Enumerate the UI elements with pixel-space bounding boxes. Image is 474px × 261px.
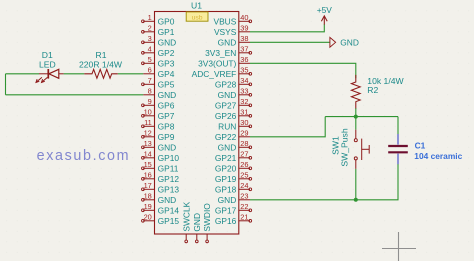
U1 pin 30 (RUN) bbox=[218, 118, 252, 131]
svg-text:GND: GND bbox=[158, 195, 177, 205]
svg-text:GND: GND bbox=[218, 90, 237, 100]
svg-text:GP18: GP18 bbox=[215, 184, 237, 194]
U1 pin 14 (GP10) bbox=[142, 150, 180, 163]
svg-text:GP14: GP14 bbox=[158, 205, 180, 215]
svg-text:GP0: GP0 bbox=[158, 16, 175, 26]
svg-text:12: 12 bbox=[144, 129, 152, 138]
svg-text:GP20: GP20 bbox=[215, 163, 237, 173]
power symbol +5V bbox=[321, 16, 327, 25]
svg-text:GND: GND bbox=[218, 37, 237, 47]
svg-text:SWDIO: SWDIO bbox=[202, 203, 212, 232]
svg-text:7: 7 bbox=[148, 76, 152, 85]
svg-text:13: 13 bbox=[144, 139, 152, 148]
U1 pin 9 (GP6) bbox=[142, 97, 175, 110]
U1 pin 22 (GP17) bbox=[215, 202, 252, 215]
U1 pin 5 (GP3) bbox=[142, 55, 175, 68]
svg-text:14: 14 bbox=[144, 150, 152, 159]
U1 pin 11 (GP8) bbox=[142, 118, 175, 131]
svg-text:31: 31 bbox=[240, 108, 248, 117]
switch SW1 bbox=[354, 130, 369, 169]
svg-text:39: 39 bbox=[240, 24, 248, 33]
svg-text:32: 32 bbox=[240, 97, 248, 106]
svg-text:10: 10 bbox=[144, 108, 152, 117]
U1 pin 23 (GND) bbox=[218, 192, 250, 205]
svg-text:24: 24 bbox=[240, 181, 248, 190]
svg-text:usb: usb bbox=[192, 14, 203, 21]
U1 pin 31 (GP26) bbox=[215, 108, 252, 121]
LED D1 bbox=[36, 69, 64, 82]
wire 3V3(OUT) pin36 to R2 bbox=[250, 63, 356, 78]
svg-text:25: 25 bbox=[240, 171, 248, 180]
capacitor C1 bbox=[388, 134, 408, 164]
svg-text:220R 1/4W: 220R 1/4W bbox=[79, 59, 123, 69]
svg-text:GP12: GP12 bbox=[158, 174, 180, 184]
crosshair marker bbox=[382, 232, 416, 261]
svg-text:GND: GND bbox=[158, 37, 177, 47]
wire VSYS pin39 to +5V bbox=[250, 24, 324, 32]
U1 bottom pin (SWCLK) bbox=[181, 201, 191, 242]
U1 pin 16 (GP12) bbox=[142, 171, 180, 184]
U1 pin 38 (GND) bbox=[218, 34, 250, 47]
svg-text:23: 23 bbox=[240, 192, 248, 201]
svg-text:VSYS: VSYS bbox=[214, 27, 237, 37]
U1 pin 18 (GND) bbox=[142, 192, 177, 205]
svg-text:GP8: GP8 bbox=[158, 121, 175, 131]
U1 pin 39 (VSYS) bbox=[214, 24, 250, 37]
U1 pin 17 (GP13) bbox=[142, 181, 180, 194]
svg-text:GP28: GP28 bbox=[215, 79, 237, 89]
svg-text:+5V: +5V bbox=[317, 5, 333, 15]
U1 pin 28 (GND) bbox=[218, 139, 252, 152]
U1 pin 35 (ADC_VREF) bbox=[192, 66, 252, 79]
svg-text:29: 29 bbox=[240, 129, 248, 138]
U1 pin 19 (GP14) bbox=[142, 202, 180, 215]
wire SW1 to bottom GND net bbox=[355, 169, 357, 200]
U1 pin 3 (GND) bbox=[142, 34, 177, 47]
svg-text:27: 27 bbox=[240, 150, 248, 159]
svg-text:37: 37 bbox=[240, 45, 248, 54]
svg-text:LED: LED bbox=[39, 59, 56, 69]
U1 pin 15 (GP11) bbox=[142, 160, 179, 173]
wire GP4 pin6 to resistor R1 bbox=[118, 73, 143, 75]
svg-text:GP6: GP6 bbox=[158, 100, 175, 110]
U1 pin 40 (VBUS) bbox=[213, 13, 251, 26]
wire GP22 pin29 up to node bbox=[250, 117, 325, 137]
svg-text:C1: C1 bbox=[415, 141, 426, 151]
svg-text:1: 1 bbox=[148, 13, 152, 22]
U1 pin 24 (GP18) bbox=[215, 181, 252, 194]
svg-text:GP1: GP1 bbox=[158, 27, 175, 37]
svg-text:GP5: GP5 bbox=[158, 79, 175, 89]
svg-text:26: 26 bbox=[240, 160, 248, 169]
svg-text:3V3_EN: 3V3_EN bbox=[205, 48, 236, 58]
svg-text:GP13: GP13 bbox=[158, 184, 180, 194]
svg-text:GP27: GP27 bbox=[215, 100, 237, 110]
svg-text:33: 33 bbox=[240, 87, 248, 96]
wire return to GND pin8 bbox=[6, 94, 144, 96]
wire C1 top lead bbox=[397, 117, 399, 135]
wire GND pin38 to GND flag bbox=[250, 41, 330, 43]
U1 pin 29 (GP22) bbox=[215, 129, 250, 142]
resistor R1 bbox=[84, 69, 118, 78]
junction at R2/SW1/C1 node bbox=[354, 115, 358, 119]
wire junction to SW1 bbox=[355, 117, 357, 130]
svg-text:11: 11 bbox=[144, 118, 152, 127]
junction at SW1/GND net bbox=[354, 198, 358, 202]
U1 pin 7 (GP5) bbox=[142, 76, 175, 89]
svg-text:38: 38 bbox=[240, 34, 248, 43]
svg-text:GP9: GP9 bbox=[158, 132, 175, 142]
U1 pin 36 (3V3(OUT)) bbox=[198, 55, 250, 68]
svg-text:RUN: RUN bbox=[218, 121, 236, 131]
U1 pin 32 (GP27) bbox=[215, 97, 252, 110]
U1 pin 26 (GP20) bbox=[215, 160, 252, 173]
svg-text:2: 2 bbox=[148, 24, 152, 33]
svg-text:18: 18 bbox=[144, 192, 152, 201]
U1 pin 27 (GP21) bbox=[215, 150, 252, 163]
svg-text:17: 17 bbox=[144, 181, 152, 190]
svg-text:GND: GND bbox=[192, 213, 202, 232]
U1 pin 13 (GND) bbox=[142, 139, 177, 152]
U1 pin 2 (GP1) bbox=[142, 24, 175, 37]
svg-text:GP21: GP21 bbox=[215, 153, 237, 163]
svg-text:GP16: GP16 bbox=[215, 216, 237, 226]
wire left vertical return bbox=[5, 74, 7, 95]
svg-text:GP10: GP10 bbox=[158, 153, 180, 163]
IC U1 body (Raspberry Pi Pico microcontroller) bbox=[155, 12, 239, 235]
U1 pin 20 (GP15) bbox=[142, 213, 180, 226]
svg-text:22: 22 bbox=[240, 202, 248, 211]
U1 pin 1 (GP0) bbox=[142, 13, 175, 26]
U1 pin 25 (GP19) bbox=[215, 171, 252, 184]
resistor R2 bbox=[351, 75, 360, 109]
svg-text:GND: GND bbox=[158, 142, 177, 152]
svg-text:9: 9 bbox=[148, 97, 152, 106]
svg-text:3: 3 bbox=[148, 34, 152, 43]
svg-text:6: 6 bbox=[148, 66, 152, 75]
svg-text:16: 16 bbox=[144, 171, 152, 180]
svg-text:GP7: GP7 bbox=[158, 111, 175, 121]
svg-text:GND: GND bbox=[340, 37, 359, 47]
svg-text:28: 28 bbox=[240, 139, 248, 148]
svg-text:4: 4 bbox=[148, 45, 152, 54]
U1 value label "usb" (yellow box) bbox=[186, 12, 208, 21]
svg-text:104 ceramic: 104 ceramic bbox=[414, 151, 462, 161]
svg-text:SWCLK: SWCLK bbox=[181, 201, 191, 231]
wire LED anode left bbox=[6, 73, 40, 75]
svg-text:exasub.com: exasub.com bbox=[37, 148, 131, 164]
wire R2 to junction bbox=[355, 108, 357, 116]
GND flag symbol bbox=[330, 37, 336, 47]
U1 pin 6 (GP4) bbox=[143, 66, 175, 79]
U1 pin 12 (GP9) bbox=[142, 129, 175, 142]
svg-text:5: 5 bbox=[148, 55, 152, 64]
svg-text:36: 36 bbox=[240, 55, 248, 64]
svg-text:R2: R2 bbox=[367, 85, 378, 95]
U1 pin 4 (GP2) bbox=[142, 45, 175, 58]
svg-text:VBUS: VBUS bbox=[213, 16, 236, 26]
svg-text:GP2: GP2 bbox=[158, 48, 175, 58]
svg-text:GP19: GP19 bbox=[215, 174, 237, 184]
svg-text:SW_Push: SW_Push bbox=[340, 128, 350, 166]
U1 pin 37 (3V3_EN) bbox=[205, 45, 252, 58]
U1 pin 34 (GP28) bbox=[215, 76, 252, 89]
svg-text:34: 34 bbox=[240, 76, 248, 85]
wire node row to C1 top bbox=[325, 116, 398, 118]
U1 bottom pin (GND) bbox=[192, 213, 202, 243]
svg-text:GND: GND bbox=[218, 142, 237, 152]
svg-text:GND: GND bbox=[158, 90, 177, 100]
svg-text:30: 30 bbox=[240, 118, 248, 127]
svg-text:20: 20 bbox=[144, 213, 152, 222]
svg-text:19: 19 bbox=[144, 202, 152, 211]
U1 pin 21 (GP16) bbox=[215, 213, 252, 226]
svg-text:GND: GND bbox=[218, 195, 237, 205]
svg-text:ADC_VREF: ADC_VREF bbox=[192, 69, 237, 79]
svg-text:GP3: GP3 bbox=[158, 58, 175, 68]
wire GND pin23 to C1 bottom bbox=[250, 164, 398, 200]
svg-text:15: 15 bbox=[144, 160, 152, 169]
svg-text:GP4: GP4 bbox=[158, 69, 175, 79]
svg-text:U1: U1 bbox=[191, 1, 202, 11]
svg-text:GP22: GP22 bbox=[215, 132, 237, 142]
svg-text:GP26: GP26 bbox=[215, 111, 237, 121]
U1 bottom pin (SWDIO) bbox=[202, 203, 212, 243]
U1 pin 33 (GND) bbox=[218, 87, 252, 100]
wire LED D1 to R1 bbox=[64, 73, 85, 75]
svg-text:40: 40 bbox=[240, 13, 248, 22]
svg-text:8: 8 bbox=[148, 87, 152, 96]
svg-text:35: 35 bbox=[240, 66, 248, 75]
svg-text:GP11: GP11 bbox=[158, 163, 179, 173]
svg-text:21: 21 bbox=[240, 213, 248, 222]
svg-text:GP17: GP17 bbox=[215, 205, 237, 215]
U1 pin 10 (GP7) bbox=[142, 108, 175, 121]
svg-text:3V3(OUT): 3V3(OUT) bbox=[198, 58, 236, 68]
U1 pin 8 (GND) bbox=[143, 87, 176, 100]
svg-text:GP15: GP15 bbox=[158, 216, 180, 226]
